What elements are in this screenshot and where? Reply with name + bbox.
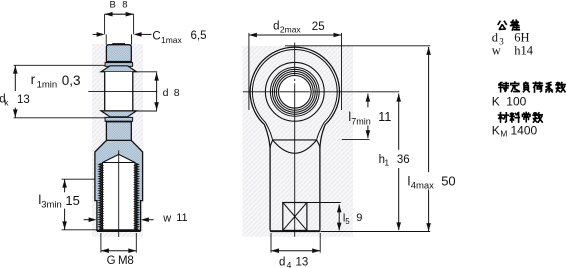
shank bottom face xyxy=(97,230,141,232)
housing seat edge top xyxy=(106,61,132,63)
dim w 11 xyxy=(84,219,90,221)
dim dk 13 xyxy=(14,64,105,66)
ball top peeking above housing xyxy=(113,43,125,46)
hatched background box, left view xyxy=(92,44,143,237)
svg-text:5: 5 xyxy=(345,217,350,226)
bore centerline horizontal xyxy=(88,90,157,92)
vertical centerline xyxy=(294,43,296,76)
chamfer diagonal left xyxy=(270,140,272,146)
svg-text:K: K xyxy=(492,124,500,138)
thread zigzag right xyxy=(135,163,138,229)
dim d2max 25 xyxy=(249,34,342,36)
svg-text:M: M xyxy=(118,255,128,267)
bore window white fill xyxy=(105,72,133,111)
shank axis centerline xyxy=(118,150,120,237)
svg-text:0,3: 0,3 xyxy=(62,73,81,88)
heading: specific load factor (Chinese) xyxy=(499,83,509,92)
svg-text:k: k xyxy=(4,98,9,108)
dim h1 36 xyxy=(398,94,400,150)
svg-text:8: 8 xyxy=(127,255,133,267)
head outer silhouette: circle blending into shank xyxy=(250,47,339,148)
svg-text:K: K xyxy=(492,95,500,109)
svg-text:11: 11 xyxy=(378,110,391,124)
svg-text:50: 50 xyxy=(441,174,455,189)
svg-text:r: r xyxy=(31,72,36,87)
horizontal centerline xyxy=(243,91,276,93)
dim G M8 xyxy=(100,233,102,253)
svg-text:8: 8 xyxy=(174,87,180,99)
svg-text:1: 1 xyxy=(384,157,389,167)
svg-text:1min: 1min xyxy=(37,80,58,91)
dim l4max 50 xyxy=(285,45,430,47)
svg-text:100: 100 xyxy=(506,95,526,109)
svg-text:36: 36 xyxy=(397,154,410,166)
svg-text:1max: 1max xyxy=(161,35,183,45)
thread zigzag left xyxy=(99,163,102,229)
svg-text:M: M xyxy=(500,129,507,139)
heading: tolerance (Chinese) xyxy=(498,21,506,29)
rod end side view: housing top block xyxy=(106,45,131,62)
svg-text:C: C xyxy=(152,31,160,43)
svg-text:3min: 3min xyxy=(41,200,62,211)
housing seat edge bottom xyxy=(106,121,132,123)
ball top cap xyxy=(101,66,136,72)
ball/race ring cluster xyxy=(270,67,319,116)
svg-text:w: w xyxy=(492,43,501,57)
svg-text:d: d xyxy=(273,21,279,33)
svg-text:B: B xyxy=(110,0,116,11)
head back face sag arc xyxy=(273,140,317,153)
shank side right xyxy=(319,146,321,230)
housing bottom block / neck xyxy=(106,122,131,141)
svg-text:4: 4 xyxy=(287,260,292,268)
thread length square xyxy=(283,203,307,231)
housing lip band bottom xyxy=(105,117,133,121)
svg-text:4max: 4max xyxy=(411,180,434,191)
bore bottom edge xyxy=(101,110,136,112)
svg-text:13: 13 xyxy=(17,94,30,106)
svg-text:11: 11 xyxy=(176,212,187,224)
shank side left xyxy=(269,146,271,230)
svg-text:9: 9 xyxy=(356,212,362,224)
square diagonal 1 xyxy=(283,203,307,231)
dim B 8 xyxy=(105,13,134,15)
chamfer diagonal right xyxy=(317,140,320,146)
svg-text:25: 25 xyxy=(312,21,325,33)
dim d4 13 xyxy=(270,233,272,253)
heading: material constant (Chinese) xyxy=(499,113,509,122)
svg-text:7min: 7min xyxy=(351,117,371,127)
seat outer ring xyxy=(265,62,324,121)
dim d 8 xyxy=(136,71,157,73)
svg-text:8: 8 xyxy=(122,0,127,11)
bore top edge xyxy=(101,71,136,73)
svg-text:13: 13 xyxy=(296,257,309,268)
internal thread cavity (white) xyxy=(103,154,135,229)
dim l3min 15 xyxy=(62,178,95,180)
square diagonal 2 xyxy=(283,203,307,231)
svg-text:w: w xyxy=(162,212,171,224)
square top line extension / l5 ext xyxy=(307,202,341,204)
thread cavity base line xyxy=(103,162,135,164)
svg-text:15: 15 xyxy=(65,193,79,208)
dim l5 9 xyxy=(338,205,340,231)
shank bottom face xyxy=(270,230,320,232)
bore circle xyxy=(279,76,312,109)
dim l7min 11 xyxy=(367,94,369,108)
hatched background box, right view xyxy=(243,46,354,237)
dim C1max 6,5 xyxy=(93,33,97,35)
ball side flats xyxy=(104,72,106,111)
svg-text:2max: 2max xyxy=(280,24,302,34)
shank body with flare (section) xyxy=(95,140,143,230)
ball bottom cap xyxy=(101,111,136,117)
svg-text:G: G xyxy=(107,255,116,267)
svg-text:h14: h14 xyxy=(514,43,534,57)
svg-text:1400: 1400 xyxy=(511,124,538,138)
svg-text:d: d xyxy=(163,87,169,99)
svg-text:d: d xyxy=(279,256,285,268)
housing lip band top xyxy=(105,63,133,67)
head chamfer edge: circle blending into bottom face chord xyxy=(252,49,337,139)
svg-text:6,5: 6,5 xyxy=(191,30,207,42)
head bottom face chord xyxy=(273,139,317,141)
